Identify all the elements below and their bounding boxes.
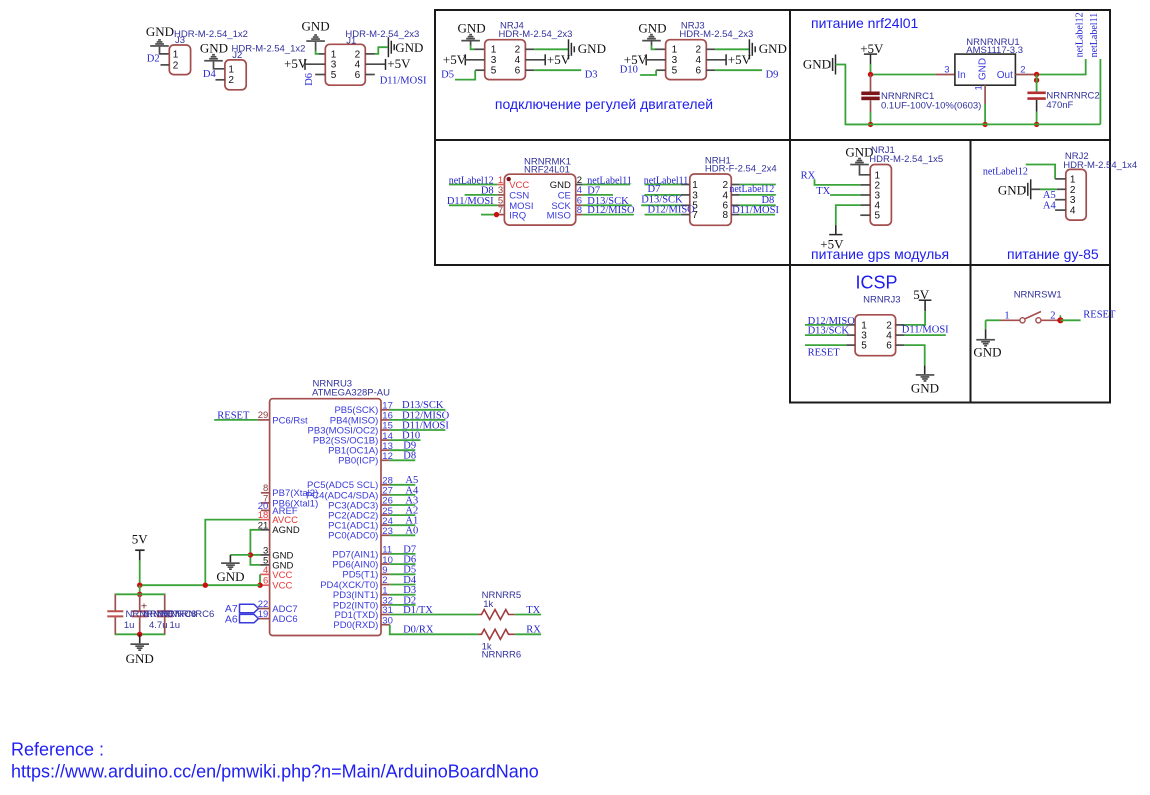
wire D12/MISO from MK1 pin8 <box>583 214 634 216</box>
svg-text:питание gy-85: питание gy-85 <box>1007 246 1099 262</box>
svg-text:netLabel12: netLabel12 <box>1075 12 1086 57</box>
pin 7 of MK1 (IRQ) <box>497 214 505 216</box>
svg-text:3: 3 <box>1070 195 1076 206</box>
resistor R5 (NRNRR5 1k) <box>478 610 514 620</box>
node junction VCC rail <box>257 583 262 588</box>
node junction cap top <box>137 592 142 597</box>
connector NRJ1 <box>870 165 891 226</box>
svg-text:GND: GND <box>216 569 244 584</box>
svg-text:470nF: 470nF <box>1046 100 1073 111</box>
svg-text:Reference :: Reference : <box>11 740 104 760</box>
ground (bar style) at NRJ3 pin2 <box>748 39 750 59</box>
connector NRJ3 <box>666 40 707 80</box>
wire netLabel11 to NRH1 pin1 <box>645 184 681 186</box>
wire D12/MISO from U3 pin 16 <box>390 419 446 421</box>
svg-text:D12/MISO: D12/MISO <box>648 204 696 215</box>
wire D11/MOSI from U3 pin 15 <box>390 429 446 431</box>
wire D8 to MK1 pin3 <box>465 194 498 196</box>
svg-text:D3: D3 <box>585 70 598 81</box>
power port +5V at NRJ4 pin4 <box>525 59 545 61</box>
svg-text:A5: A5 <box>1043 190 1056 201</box>
svg-text:RESET: RESET <box>217 410 250 421</box>
pin 4 of MK1 (CE) <box>576 194 583 196</box>
svg-text:+5V: +5V <box>728 52 752 67</box>
wire NRH1 pin2 <box>740 184 776 186</box>
svg-text:GND: GND <box>302 18 330 33</box>
svg-text:VCC: VCC <box>272 581 292 592</box>
svg-text:2: 2 <box>355 49 361 60</box>
svg-text:ATMEGA328P-AU: ATMEGA328P-AU <box>312 387 390 398</box>
svg-text:netLabel11: netLabel11 <box>1089 13 1100 58</box>
capacitor bank bottom wire <box>115 633 166 635</box>
frame: ICSP box <box>790 265 971 403</box>
power port +5V at NRJ1 <box>829 234 842 236</box>
svg-text:RESET: RESET <box>1083 310 1116 321</box>
svg-text:питание nrf24l01: питание nrf24l01 <box>811 15 918 31</box>
svg-text:подключение регулей двигателей: подключение регулей двигателей <box>495 96 713 112</box>
svg-text:A6: A6 <box>225 613 238 625</box>
wire to chip ground symbol <box>230 554 250 556</box>
power port +5V at NRJ3 pin3 <box>645 54 647 65</box>
regulator U1 AMS1117-3.3 <box>955 54 1016 85</box>
node junction C1/bottom rail <box>868 122 873 127</box>
svg-text:TX: TX <box>526 605 540 616</box>
svg-text:5: 5 <box>861 341 867 352</box>
wire D6 from U3 pin 10 <box>390 563 416 565</box>
wire RX to NRJ1 pin2 <box>815 179 861 185</box>
svg-text:2: 2 <box>228 75 234 86</box>
wire D2 from U3 pin 32 <box>390 604 416 606</box>
svg-text:D5: D5 <box>441 70 454 81</box>
svg-text:4: 4 <box>723 190 729 201</box>
capacitor NRNRNRC2 <box>1036 75 1038 93</box>
svg-text:GND: GND <box>638 21 666 36</box>
node junction GND pins <box>248 552 253 557</box>
svg-text:D11/MOSI: D11/MOSI <box>902 325 949 336</box>
svg-text:HDR-M-2.54_2x3: HDR-M-2.54_2x3 <box>679 29 753 40</box>
svg-text:1: 1 <box>228 64 234 75</box>
svg-text:GND: GND <box>998 183 1026 198</box>
wire SW1 pin1 to ground <box>985 320 987 329</box>
svg-text:GND: GND <box>759 41 787 56</box>
ground symbol at ICSP <box>916 374 935 376</box>
svg-text:ICSP: ICSP <box>856 273 898 293</box>
wire NRJ3 pin6 <box>706 69 715 71</box>
wire +5V to NRJ1 pin4 <box>860 204 870 206</box>
wire NRH1 pin6 <box>740 204 776 206</box>
svg-text:In: In <box>957 70 965 81</box>
wire NRJ4 pin1 to ground <box>470 42 472 46</box>
wire J1 pin5 stub <box>315 74 325 76</box>
resistor R6 (NRNRR6 1k) <box>478 629 514 639</box>
svg-text:A4: A4 <box>1043 201 1057 212</box>
wire cap bank to ground <box>139 634 141 643</box>
svg-text:5: 5 <box>875 211 881 222</box>
capacitor bank top wire <box>115 593 166 595</box>
IC U3 ATMEGA328P-AU <box>270 399 381 636</box>
svg-text:GND: GND <box>126 651 154 666</box>
svg-text:netLabel12: netLabel12 <box>983 166 1028 177</box>
wire 5V to rail <box>139 560 141 585</box>
svg-text:D8: D8 <box>403 451 416 462</box>
svg-text:NRNRSW1: NRNRSW1 <box>1014 290 1062 301</box>
wire AGND elbow <box>250 530 260 555</box>
svg-text:HDR-M-2.54_2x3: HDR-M-2.54_2x3 <box>499 29 573 40</box>
svg-text:+5V: +5V <box>284 56 308 71</box>
svg-text:PC6/Rst: PC6/Rst <box>272 415 308 426</box>
svg-text:NRNRNRC6: NRNRNRC6 <box>161 609 214 620</box>
svg-text:+5V: +5V <box>820 237 844 252</box>
wire RESET to U3 pin29 <box>214 419 258 421</box>
svg-text:NRNRJ3: NRNRJ3 <box>863 295 900 306</box>
svg-text:1: 1 <box>1070 174 1076 185</box>
svg-text:1: 1 <box>491 45 497 56</box>
svg-text:8: 8 <box>577 205 582 216</box>
wire GND to NRJ2 pin2 <box>1031 188 1041 190</box>
wire D7 from MK1 pin4 <box>583 194 613 196</box>
svg-text:PD0(RXD): PD0(RXD) <box>333 620 378 631</box>
svg-text:1: 1 <box>974 85 985 90</box>
svg-text:1: 1 <box>498 175 503 186</box>
power port +5V at J1 pin4 <box>365 63 385 65</box>
wire D3 from U3 pin 1 <box>390 594 416 596</box>
power port +5V at NRJ4 pin3 <box>464 54 466 65</box>
frame: nrf24l01 module box <box>435 140 790 265</box>
wire 5V to NRNRJ3 pin2 <box>904 311 925 325</box>
svg-text:3: 3 <box>491 55 497 66</box>
wire stub at MK1 pin7 <box>481 214 497 216</box>
pin 8 of MK1 (MISO) <box>576 214 583 216</box>
pin 2 of MK1 (GND) <box>576 184 583 186</box>
svg-text:J2: J2 <box>232 50 242 61</box>
svg-text:5: 5 <box>491 66 497 77</box>
wire D4 from U3 pin 2 <box>390 584 416 586</box>
svg-text:2: 2 <box>515 45 521 56</box>
svg-text:D1/TX: D1/TX <box>403 605 433 616</box>
svg-text:TX: TX <box>816 186 830 197</box>
svg-text:Out: Out <box>997 70 1013 81</box>
wire netLabel12 to NRJ2 pin1 <box>1026 165 1055 179</box>
svg-text:2: 2 <box>696 45 702 56</box>
wire J2 pin1 to ground <box>214 62 225 69</box>
svg-text:D0/RX: D0/RX <box>403 625 434 636</box>
node junction C2/rail <box>1034 122 1039 127</box>
svg-text:RX: RX <box>526 624 541 635</box>
wire GND to SW1 pin1 <box>986 319 1001 321</box>
svg-text:5V: 5V <box>132 531 149 546</box>
svg-text:GND: GND <box>803 57 831 72</box>
bottom ground rail <box>845 123 1100 125</box>
svg-text:D7: D7 <box>587 186 600 197</box>
svg-text:1u: 1u <box>170 620 181 631</box>
svg-text:GND: GND <box>911 381 939 396</box>
pin 1 of MK1 (VCC) <box>497 184 504 186</box>
wire A2 from U3 pin 25 <box>390 514 416 516</box>
wire D10 from U3 pin 14 <box>390 439 421 441</box>
wire J1 pin6 stub <box>365 74 375 76</box>
wire NRJ4 pin2 to ground bars <box>525 48 534 50</box>
svg-text:D9: D9 <box>766 70 779 81</box>
svg-text:RESET: RESET <box>808 348 841 359</box>
wire J1 pin2 to ground bars <box>365 53 374 55</box>
wire NRJ1 pin5 stub <box>860 214 870 216</box>
svg-text:AGND: AGND <box>272 525 300 536</box>
wire D0/RX <box>390 625 479 635</box>
svg-text:2: 2 <box>1070 185 1076 196</box>
svg-text:PC0(ADC0): PC0(ADC0) <box>328 531 378 542</box>
node junction MK1 pin7 <box>494 212 499 217</box>
svg-text:NRF24L01: NRF24L01 <box>524 165 570 176</box>
node junction +5V/C1 <box>868 72 873 77</box>
svg-text:+5V: +5V <box>547 52 571 67</box>
svg-text:4: 4 <box>1070 206 1076 217</box>
svg-text:netLabel12: netLabel12 <box>729 184 774 195</box>
svg-text:1k: 1k <box>483 599 493 610</box>
svg-text:D4: D4 <box>203 69 217 80</box>
ground (bar style) at NRJ4 pin2 <box>568 39 570 59</box>
ground symbol at NRJ1 <box>850 164 869 166</box>
wire D13/SCK from MK1 pin6 <box>583 204 632 206</box>
frame: gps power box <box>790 140 971 265</box>
svg-text:2: 2 <box>577 175 582 186</box>
svg-text:VCC: VCC <box>509 180 529 191</box>
svg-text:4: 4 <box>696 55 702 66</box>
svg-text:5: 5 <box>672 66 678 77</box>
IC MK1 NRF24L01 <box>504 174 575 225</box>
connector J3 <box>169 45 190 75</box>
power port +5V at J1 pin3 <box>304 59 306 70</box>
svg-text:GND: GND <box>550 180 571 191</box>
svg-text:4: 4 <box>577 185 582 196</box>
wire D1/TX <box>390 614 479 616</box>
wire Out pin to netLabel12 <box>1015 74 1036 76</box>
svg-text:GND: GND <box>973 344 1001 359</box>
svg-text:3: 3 <box>331 60 337 71</box>
frame: nrf24l01 power box <box>790 10 1110 140</box>
wire NRJ4 pin5 with elbow <box>475 69 485 71</box>
switch contacts and lever <box>1020 318 1025 323</box>
svg-text:1: 1 <box>692 180 698 191</box>
wire D12/MISO to NRH1 pin7 <box>645 214 681 216</box>
capacitor C6 (1u) <box>164 594 166 611</box>
svg-text:VCC: VCC <box>272 570 292 581</box>
svg-text:ADC6: ADC6 <box>272 614 297 625</box>
svg-text:D11/MOSI: D11/MOSI <box>447 196 494 207</box>
wire GND pin3 <box>250 554 260 556</box>
wire A5 from U3 pin 28 <box>390 484 416 486</box>
ground symbol at SW1 <box>976 339 995 341</box>
svg-text:6: 6 <box>696 66 702 77</box>
wire D12/MISO to NRNRJ3 pin1 <box>805 324 846 326</box>
svg-text:netLabel11: netLabel11 <box>587 175 632 186</box>
wire netLabel11 drop <box>1099 59 1101 124</box>
svg-text:D10: D10 <box>620 65 638 76</box>
svg-text:GND: GND <box>146 24 174 39</box>
wire NRJ3 pin2 to ground bars <box>706 48 715 50</box>
capacitor C7 (1u) <box>114 594 116 611</box>
wire J1 pin1 to ground <box>315 42 317 51</box>
node junction U1 gnd / rail <box>982 122 987 127</box>
svg-text:0.1UF-100V-10%(0603): 0.1UF-100V-10%(0603) <box>881 100 981 111</box>
wire D13/SCK to NRNRJ3 pin3 <box>805 334 846 336</box>
svg-text:AMS1117-3.3: AMS1117-3.3 <box>966 45 1023 56</box>
ground symbol at J3 <box>150 45 169 47</box>
wire D7 to NRH1 pin3 <box>645 194 681 196</box>
svg-text:6: 6 <box>515 66 521 77</box>
wire AVCC to 5V rail <box>205 520 260 586</box>
svg-text:MISO: MISO <box>547 210 571 221</box>
wire NRJ3 pin1 to ground <box>651 42 653 46</box>
wire netLabel11 from MK1 pin2 <box>583 184 631 186</box>
wire +5V junction to AMS1117 In <box>871 74 936 76</box>
connector J1 <box>325 44 365 85</box>
wire D11/MOSI from NRNRJ3 pin4 <box>896 334 905 336</box>
ground symbol at U3 <box>221 562 240 564</box>
wire A0 from U3 pin 23 <box>390 534 416 536</box>
svg-text:4: 4 <box>515 55 521 66</box>
svg-text:4.7u: 4.7u <box>149 620 168 631</box>
connector NRNRJ3 <box>855 315 896 356</box>
wire GND to bottom rail <box>836 65 871 125</box>
wire NRNRJ3 pin6 to ground <box>896 344 905 346</box>
svg-text:CSN: CSN <box>509 191 529 202</box>
wire NRH1 pin8 <box>740 214 776 216</box>
connector NRH1 <box>690 174 732 225</box>
svg-text:2: 2 <box>723 180 729 191</box>
wire SW1 pin2 to RESET <box>1060 319 1080 321</box>
svg-text:6: 6 <box>886 341 892 352</box>
ground symbol below capacitors <box>130 643 149 645</box>
wire D8 from U3 pin 12 <box>390 459 416 461</box>
node junction Out <box>1034 72 1039 77</box>
wire J3 pin1 to ground <box>160 47 170 54</box>
svg-text:GND: GND <box>458 21 486 36</box>
svg-text:CE: CE <box>558 191 571 202</box>
wire RESET to NRNRJ3 pin5 <box>805 344 846 346</box>
ground symbol at J2 <box>204 60 223 62</box>
wire NRJ4 pin6 <box>525 69 534 71</box>
svg-text:J1: J1 <box>346 35 356 46</box>
ground symbol at NRJ3 <box>642 40 661 42</box>
svg-text:GND: GND <box>578 41 606 56</box>
capacitor NRNRNRC1 <box>870 75 872 92</box>
ground (bar style) at J1 pin2 <box>387 37 389 57</box>
wire D5 from U3 pin 9 <box>390 573 416 575</box>
svg-text:3: 3 <box>692 190 698 201</box>
svg-text:https://www.arduino.cc/en/pmwi: https://www.arduino.cc/en/pmwiki.php?n=M… <box>11 762 539 782</box>
wire D13/SCK from U3 pin 17 <box>390 409 446 411</box>
svg-text:3: 3 <box>944 65 949 76</box>
svg-text:D11/MOSI: D11/MOSI <box>732 205 779 216</box>
wire rail to capacitor bank <box>139 585 141 594</box>
node junction 5V/rail <box>137 583 142 588</box>
frame: reset switch box <box>971 265 1111 403</box>
wire GND pin5 elbow <box>250 555 260 565</box>
svg-text:J3: J3 <box>175 35 185 46</box>
wire R6 to RX <box>515 633 542 635</box>
wire R5 to TX <box>515 614 542 616</box>
svg-text:2: 2 <box>173 60 179 71</box>
svg-text:D12/MISO: D12/MISO <box>587 205 635 216</box>
svg-text:IRQ: IRQ <box>509 210 526 221</box>
node junction cap bottom <box>137 632 142 637</box>
svg-text:HDR-M-2.54_1x5: HDR-M-2.54_1x5 <box>869 154 943 165</box>
wire D7 from U3 pin 11 <box>390 553 416 555</box>
svg-text:netLabel12: netLabel12 <box>449 175 494 186</box>
svg-text:NRNRR6: NRNRR6 <box>482 650 522 661</box>
svg-text:1: 1 <box>331 49 337 60</box>
svg-text:+5V: +5V <box>387 56 411 71</box>
svg-text:HDR-M-2.54_1x4: HDR-M-2.54_1x4 <box>1063 160 1137 171</box>
svg-text:HDR-M-2.54_1x2: HDR-M-2.54_1x2 <box>232 43 306 54</box>
5V distribution rail <box>140 584 260 586</box>
pin 6 of MK1 (SCK) <box>576 204 583 206</box>
wire TX to NRJ1 pin3 <box>830 194 860 196</box>
capacitor C8 (4.7u polarized) <box>139 594 141 611</box>
svg-text:1: 1 <box>672 45 678 56</box>
ground symbol at J1 <box>306 40 325 42</box>
svg-text:4: 4 <box>355 60 361 71</box>
connector NRJ4 <box>485 40 526 80</box>
wire netLabel12 to MK1 pin1 <box>449 184 497 186</box>
wire D11/MOSI to MK1 pin5 <box>449 204 497 206</box>
wire NRJ1 pin1 to ground <box>860 165 871 174</box>
svg-text:1u: 1u <box>124 620 135 631</box>
wire A3 from U3 pin 26 <box>390 504 416 506</box>
wire A1 from U3 pin 24 <box>390 524 416 526</box>
connector NRJ2 <box>1066 169 1086 220</box>
svg-text:5: 5 <box>331 70 337 81</box>
svg-text:GND: GND <box>200 40 228 55</box>
wire VCC pin4 elbow <box>259 574 261 585</box>
svg-text:D8: D8 <box>481 186 494 197</box>
wire A4 from U3 pin 27 <box>390 494 416 496</box>
svg-text:HDR-M-2.54_1x2: HDR-M-2.54_1x2 <box>174 29 248 40</box>
wire D13/SCK to NRH1 pin5 <box>641 204 681 206</box>
wire NRJ3 pin5 with elbow <box>656 69 666 71</box>
wire NRJ2 pin3 stub <box>1055 199 1066 201</box>
svg-text:HDR-F-2.54_2x4: HDR-F-2.54_2x4 <box>705 164 777 175</box>
ground symbol at NRJ4 <box>461 40 480 42</box>
svg-text:A0: A0 <box>405 526 418 537</box>
svg-text:D2: D2 <box>147 53 160 64</box>
svg-text:D11/MOSI: D11/MOSI <box>380 75 427 86</box>
frame: motor-regulators box <box>435 10 790 140</box>
svg-text:+5V: +5V <box>443 52 467 67</box>
pin 3 of MK1 (CSN) <box>497 194 504 196</box>
svg-text:6: 6 <box>355 70 361 81</box>
node junction SW1 pin2 <box>1059 315 1061 320</box>
pin 5 of MK1 (MOSI) <box>497 204 504 206</box>
svg-text:1: 1 <box>173 49 179 60</box>
svg-text:GND: GND <box>395 40 423 55</box>
connector J2 <box>225 60 246 90</box>
wire NRH1 pin4 <box>740 194 776 196</box>
svg-text:RX: RX <box>801 170 816 181</box>
power port +5V at NRJ3 pin4 <box>706 59 726 61</box>
svg-text:3: 3 <box>498 185 503 196</box>
svg-text:D6: D6 <box>304 73 315 86</box>
svg-text:HDR-M-2.54_2x3: HDR-M-2.54_2x3 <box>345 29 419 40</box>
svg-text:3: 3 <box>672 55 678 66</box>
wire NRJ2 pin4 stub <box>1055 209 1066 211</box>
wire D9 from U3 pin 13 <box>390 449 416 451</box>
svg-text:8: 8 <box>723 210 729 221</box>
frame: gy-85 power box <box>971 140 1111 265</box>
svg-text:PB0(ICP): PB0(ICP) <box>338 456 378 467</box>
svg-text:GND: GND <box>978 58 989 80</box>
svg-text:D7: D7 <box>648 184 661 195</box>
